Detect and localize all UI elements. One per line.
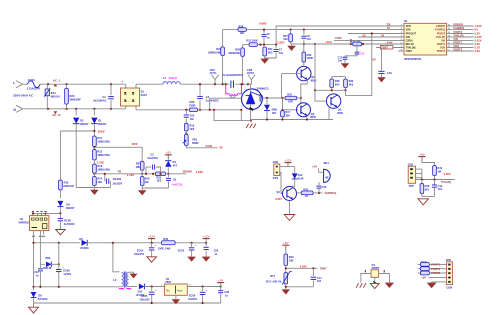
junction bbox=[199, 109, 201, 111]
junction bbox=[104, 173, 106, 175]
svg-text:U2: U2 bbox=[20, 217, 24, 221]
svg-text:R35 10R: R35 10R bbox=[350, 41, 360, 44]
ground bbox=[90, 186, 99, 195]
svg-text:ERROR: ERROR bbox=[453, 23, 462, 27]
svg-text:OUT2: OUT2 bbox=[247, 71, 254, 75]
svg-text:D6: D6 bbox=[66, 202, 70, 206]
svg-text:1u/50V: 1u/50V bbox=[63, 273, 71, 276]
wire bbox=[293, 185, 295, 188]
wire bbox=[332, 76, 346, 78]
svg-text:VR1: VR1 bbox=[192, 138, 198, 142]
junction bbox=[380, 46, 382, 48]
svg-text:1M0(0.5W): 1M0(0.5W) bbox=[97, 154, 110, 157]
IC U3 7805 regulator bbox=[161, 277, 188, 296]
junction bbox=[281, 118, 283, 120]
svg-text:TA: TA bbox=[387, 26, 391, 30]
junction bbox=[202, 285, 204, 287]
wire bbox=[93, 147, 95, 150]
wire +12V rail bbox=[34, 242, 81, 244]
svg-text:IRS2530DVA: IRS2530DVA bbox=[404, 57, 422, 61]
wire bbox=[280, 173, 283, 194]
svg-text:PORT1: PORT1 bbox=[431, 263, 440, 267]
junction bbox=[32, 286, 34, 288]
svg-text:5K1: 5K1 bbox=[425, 187, 430, 191]
junction bbox=[151, 302, 153, 304]
resistor R24 bbox=[208, 47, 224, 84]
power +12V bbox=[203, 234, 210, 242]
junction bbox=[303, 29, 305, 31]
wire aux gnd rail bbox=[34, 286, 122, 288]
diode D9 (inline) bbox=[79, 237, 206, 250]
net label TVAL(N) bbox=[441, 180, 452, 184]
svg-text:TVAL(N): TVAL(N) bbox=[441, 180, 452, 184]
wire U3 out bbox=[187, 285, 220, 287]
svg-text:300V: 300V bbox=[98, 130, 105, 134]
resistor R13 bbox=[93, 164, 110, 173]
svg-text:0V: 0V bbox=[475, 28, 478, 32]
svg-text:3K3: 3K3 bbox=[335, 83, 340, 86]
capacitor C02 bbox=[184, 110, 195, 124]
potentiometer VR1 bbox=[183, 131, 199, 146]
svg-text:R14: R14 bbox=[97, 177, 102, 181]
junction bbox=[159, 173, 161, 175]
relay/buffer RE1 bbox=[312, 161, 330, 182]
svg-text:3u3/400DC: 3u3/400DC bbox=[206, 99, 219, 103]
resistor R18 bbox=[184, 123, 194, 131]
svg-text:1.70V: 1.70V bbox=[97, 160, 104, 164]
wire net row4 bbox=[358, 36, 404, 38]
svg-text:TB: TB bbox=[118, 170, 122, 174]
wire gnd row bbox=[432, 281, 447, 284]
svg-text:TINIT: TINIT bbox=[320, 266, 327, 270]
resistor R35 (inline on +15V rail) bbox=[350, 41, 361, 46]
junction bbox=[318, 192, 320, 194]
capacitor C08 bbox=[218, 287, 229, 304]
ground bbox=[341, 63, 350, 68]
svg-text:3n3/1kVAC: 3n3/1kVAC bbox=[93, 98, 106, 102]
svg-text:PORT2: PORT2 bbox=[453, 48, 462, 52]
svg-text:+15V: +15V bbox=[325, 40, 332, 44]
svg-text:100R: 100R bbox=[307, 56, 313, 60]
wire bbox=[373, 277, 377, 284]
junction bbox=[47, 83, 49, 85]
svg-text:1K0: 1K0 bbox=[189, 127, 194, 131]
junction bbox=[350, 43, 352, 45]
wire lamp return bbox=[214, 110, 251, 121]
power +5V bbox=[282, 241, 289, 249]
wire driver mid bbox=[300, 98, 302, 104]
svg-text:R21: R21 bbox=[136, 161, 141, 165]
junction bbox=[312, 267, 314, 269]
svg-text:C1: C1 bbox=[102, 95, 106, 99]
svg-text:ERROR: ERROR bbox=[436, 25, 445, 28]
junction bbox=[259, 44, 261, 46]
net label TA bbox=[387, 26, 391, 30]
svg-text:RC06: RC06 bbox=[64, 218, 71, 222]
zener diode DW1 bbox=[264, 98, 278, 120]
svg-text:TOP: TOP bbox=[408, 184, 414, 188]
junction bbox=[202, 302, 204, 304]
capacitor DC100 (10u/25V) bbox=[105, 174, 123, 188]
junction bbox=[93, 173, 95, 175]
svg-text:AC_N: AC_N bbox=[52, 113, 60, 117]
junction bbox=[421, 178, 423, 180]
ground bbox=[282, 289, 291, 294]
svg-text:PORT3: PORT3 bbox=[431, 271, 440, 275]
svg-text:104: 104 bbox=[317, 279, 322, 283]
svg-text:13uF: 13uF bbox=[229, 96, 236, 100]
net OFF wire bbox=[94, 147, 142, 161]
svg-text:R18: R18 bbox=[189, 123, 194, 127]
svg-text:0V: 0V bbox=[372, 57, 375, 61]
varistor RZ1 bbox=[44, 84, 60, 109]
svg-text:1N4148: 1N4148 bbox=[43, 267, 52, 270]
svg-text:10K: 10K bbox=[289, 259, 294, 263]
svg-text:1N4007: 1N4007 bbox=[80, 123, 89, 126]
svg-text:3K3: 3K3 bbox=[349, 83, 354, 86]
svg-text:5.24V: 5.24V bbox=[475, 35, 482, 39]
svg-text:OFF: OFF bbox=[132, 142, 138, 146]
ground bbox=[385, 283, 394, 288]
svg-text:R13: R13 bbox=[97, 164, 102, 168]
port N (AC neutral input) bbox=[14, 105, 23, 112]
svg-text:B1: B1 bbox=[141, 89, 145, 93]
ground bbox=[187, 257, 196, 262]
capacitor C6 bbox=[301, 30, 311, 44]
svg-text:750R: 750R bbox=[189, 103, 195, 107]
connector CN1 OUT1 bbox=[210, 68, 219, 84]
wire bbox=[93, 160, 95, 164]
resistor R34 bbox=[263, 45, 273, 59]
svg-text:R46: R46 bbox=[425, 184, 430, 188]
svg-text:1M: 1M bbox=[145, 180, 149, 184]
wire bbox=[280, 166, 288, 168]
svg-text:R40: R40 bbox=[289, 255, 294, 259]
wire TA net bbox=[223, 29, 404, 31]
svg-text:PORT3: PORT3 bbox=[453, 30, 462, 34]
svg-text:VDD: VDD bbox=[453, 44, 459, 48]
electrolytic EC03 bbox=[178, 243, 197, 257]
svg-text:+5V: +5V bbox=[419, 152, 424, 156]
svg-text:CN5: CN5 bbox=[446, 258, 452, 262]
resistor R12 bbox=[93, 150, 110, 161]
transistor Q3 bbox=[326, 94, 343, 115]
svg-text:1.12V: 1.12V bbox=[127, 173, 134, 177]
svg-text:0.05V: 0.05V bbox=[275, 197, 282, 201]
wire bottom rail bbox=[34, 302, 221, 304]
power +5V bbox=[165, 151, 172, 159]
wire top rail (bridge to L1) bbox=[136, 83, 163, 85]
capacitor C10 bbox=[34, 264, 43, 287]
svg-text:4E: 4E bbox=[325, 176, 329, 180]
junction bbox=[47, 108, 49, 110]
svg-text:0.6V: 0.6V bbox=[475, 42, 481, 46]
svg-text:+5V: +5V bbox=[166, 151, 171, 155]
svg-text:FU01: FU01 bbox=[28, 78, 35, 82]
svg-text:1.85V: 1.85V bbox=[277, 40, 284, 44]
wire Q3 emitter bbox=[336, 107, 338, 120]
svg-text:D9: D9 bbox=[79, 237, 83, 241]
resistor R44 bbox=[433, 166, 443, 180]
svg-text:CON: CON bbox=[446, 286, 452, 290]
resistor R26 bbox=[229, 45, 245, 85]
svg-text:R19: R19 bbox=[145, 177, 150, 181]
svg-text:10u(50V): 10u(50V) bbox=[147, 156, 158, 160]
svg-text:5.1V: 5.1V bbox=[475, 46, 481, 50]
junction bbox=[263, 44, 265, 46]
junction bbox=[141, 173, 143, 175]
junction bbox=[191, 242, 193, 244]
junction bbox=[65, 108, 67, 110]
svg-text:10n: 10n bbox=[190, 117, 195, 121]
inductor L1 bbox=[163, 76, 180, 84]
port TINIT (boxed) bbox=[380, 45, 393, 49]
svg-text:AC_L: AC_L bbox=[53, 78, 61, 82]
wire bbox=[240, 110, 242, 121]
wire bbox=[113, 243, 120, 272]
svg-text:PORT2: PORT2 bbox=[437, 50, 446, 53]
svg-text:1.43V: 1.43V bbox=[475, 24, 482, 28]
svg-text:1M: 1M bbox=[437, 169, 441, 173]
capacitor C3 bbox=[146, 152, 161, 173]
svg-text:+5V: +5V bbox=[312, 165, 317, 169]
wire pin8 stub bbox=[398, 50, 404, 52]
svg-text:1K: 1K bbox=[305, 195, 308, 198]
wire net COM bbox=[186, 146, 217, 148]
wire bbox=[422, 194, 435, 197]
wire L rail bbox=[40, 83, 126, 85]
junction bbox=[199, 83, 201, 85]
resistor R53 (to PORT3) bbox=[418, 271, 447, 275]
wire TB net bbox=[276, 26, 404, 45]
svg-text:R11: R11 bbox=[97, 136, 102, 140]
svg-text:6A10: 6A10 bbox=[141, 93, 148, 97]
lamp T1 (magenta winding) bbox=[226, 85, 242, 100]
svg-text:400uH: 400uH bbox=[169, 76, 177, 80]
svg-text:10R: 10R bbox=[288, 100, 293, 103]
wire bbox=[294, 185, 296, 187]
svg-text:C18: C18 bbox=[322, 186, 327, 189]
svg-text:4V7: 4V7 bbox=[173, 164, 178, 168]
wire Q2 base bbox=[283, 109, 298, 111]
junction bbox=[45, 213, 47, 215]
svg-text:PORT1: PORT1 bbox=[453, 41, 462, 45]
junction bbox=[213, 109, 215, 111]
svg-text:1n: 1n bbox=[36, 275, 39, 278]
junction bbox=[263, 29, 265, 31]
wire net TVAL(N) bbox=[416, 179, 455, 181]
diode D2 bbox=[73, 109, 89, 188]
resistor R33 (inline) bbox=[155, 172, 186, 183]
capacitor C13 bbox=[432, 180, 443, 197]
net label 300V bbox=[98, 130, 105, 134]
svg-text:R36: R36 bbox=[307, 53, 312, 57]
wire bbox=[328, 108, 330, 120]
svg-text:COM: COM bbox=[335, 36, 342, 40]
junction bbox=[32, 212, 34, 214]
svg-text:8050: 8050 bbox=[337, 111, 343, 115]
wire U3 gnd bbox=[175, 295, 177, 299]
svg-text:C4: C4 bbox=[206, 95, 210, 99]
svg-text:10K: 10K bbox=[285, 114, 290, 117]
svg-text:RZ1: RZ1 bbox=[51, 91, 57, 95]
svg-text:L2: L2 bbox=[113, 278, 117, 282]
junction bbox=[151, 285, 153, 287]
resistor R40 bbox=[284, 245, 294, 265]
svg-text:TINIT: TINIT bbox=[406, 50, 413, 53]
resistor R14 bbox=[93, 173, 103, 185]
svg-text:+12V: +12V bbox=[284, 158, 291, 162]
resistor R19 bbox=[140, 170, 150, 185]
resistor R46 bbox=[420, 180, 430, 194]
wire net SENSE bbox=[142, 173, 155, 175]
IGBT Q5 20N60C3 bbox=[242, 84, 270, 120]
wire node 300V bbox=[60, 130, 94, 132]
resistor R37 (inline gate) bbox=[285, 94, 301, 104]
junction bbox=[371, 32, 373, 34]
junction bbox=[145, 173, 147, 175]
wire bbox=[282, 98, 284, 110]
svg-text:R26: R26 bbox=[235, 48, 240, 52]
svg-text:CN3: CN3 bbox=[408, 162, 414, 166]
junction bbox=[110, 108, 112, 110]
svg-text:5.2V: 5.2V bbox=[475, 32, 481, 36]
ground (open) bbox=[56, 230, 66, 235]
wire bbox=[350, 40, 352, 44]
svg-text:UF4006: UF4006 bbox=[80, 247, 90, 250]
svg-text:L: L bbox=[13, 81, 15, 85]
svg-text:A-IN: A-IN bbox=[387, 41, 393, 45]
wire lamp to IGBT bbox=[210, 98, 242, 110]
voltage label 1.43V bbox=[196, 170, 203, 174]
wire gate bbox=[262, 97, 281, 99]
svg-text:COM: COM bbox=[205, 144, 212, 148]
wire Q4 emitter bbox=[290, 199, 293, 214]
svg-text:1K2: 1K2 bbox=[157, 179, 162, 183]
wire bottom rail bbox=[251, 120, 267, 122]
net label OFF bbox=[132, 142, 138, 146]
junction bbox=[185, 109, 187, 111]
svg-text:1n: 1n bbox=[214, 253, 217, 256]
svg-text:Q2: Q2 bbox=[311, 112, 315, 116]
junction bbox=[225, 83, 227, 85]
voltage label 0V bbox=[362, 33, 365, 37]
transformer L2 bbox=[113, 272, 131, 289]
svg-text:DB2: DB2 bbox=[45, 257, 51, 260]
junction bbox=[281, 97, 283, 99]
electrolytic EC06 bbox=[188, 287, 208, 304]
wire bbox=[315, 89, 346, 91]
svg-text:C16: C16 bbox=[387, 71, 392, 75]
ground (open) bbox=[418, 197, 429, 205]
wire N rail bbox=[23, 108, 126, 110]
svg-text:FANREQ: FANREQ bbox=[453, 26, 464, 30]
wire net TINIT bbox=[286, 266, 318, 273]
junction bbox=[240, 109, 242, 111]
svg-text:R20: R20 bbox=[69, 94, 74, 98]
capacitor C17 bbox=[338, 56, 348, 63]
svg-text:R12: R12 bbox=[97, 150, 102, 154]
svg-text:680R(10W): 680R(10W) bbox=[208, 52, 221, 55]
svg-text:R42: R42 bbox=[303, 188, 308, 191]
svg-text:0V: 0V bbox=[362, 33, 365, 37]
ground (open) bbox=[147, 257, 157, 262]
svg-text:10u/25V: 10u/25V bbox=[188, 298, 197, 301]
svg-text:1M0: 1M0 bbox=[136, 165, 142, 169]
net label TINIT bbox=[320, 266, 327, 270]
resistor R39 bbox=[344, 77, 354, 91]
junction bbox=[303, 43, 305, 45]
svg-text:Vout: Vout bbox=[177, 288, 182, 292]
svg-text:1M0(0.5W): 1M0(0.5W) bbox=[97, 168, 110, 171]
svg-text:8050: 8050 bbox=[311, 79, 317, 83]
junction bbox=[209, 109, 211, 111]
connector CN5 bbox=[446, 258, 453, 290]
fuse FU01 bbox=[27, 78, 41, 91]
connector CN2 bbox=[273, 160, 280, 180]
svg-text:220V-240V AC: 220V-240V AC bbox=[13, 94, 34, 98]
wire bbox=[282, 97, 286, 99]
capacitor C2 (series, on rail) bbox=[222, 74, 243, 88]
svg-text:100u/25V: 100u/25V bbox=[139, 298, 150, 301]
junction bbox=[266, 97, 268, 99]
voltage label 0.96V bbox=[259, 21, 266, 25]
svg-text:TVAL(P): TVAL(P) bbox=[453, 34, 463, 38]
svg-text:1M0(0.5W): 1M0(0.5W) bbox=[97, 140, 110, 143]
svg-text:R28: R28 bbox=[238, 25, 243, 29]
svg-text:BYV26C: BYV26C bbox=[38, 298, 48, 301]
svg-text:R44: R44 bbox=[437, 166, 442, 170]
junction bbox=[214, 83, 216, 85]
svg-text:C3: C3 bbox=[150, 152, 154, 156]
svg-text:20N60C3: 20N60C3 bbox=[257, 87, 269, 91]
svg-text:C02: C02 bbox=[190, 114, 195, 118]
wire net bbox=[243, 44, 249, 46]
svg-text:8050: 8050 bbox=[310, 115, 316, 119]
ground bbox=[287, 44, 296, 51]
junction bbox=[433, 178, 435, 180]
wire bbox=[235, 83, 248, 85]
svg-text:R24: R24 bbox=[216, 47, 221, 51]
svg-text:DC100: DC100 bbox=[113, 177, 122, 181]
svg-text:EC03: EC03 bbox=[178, 250, 185, 253]
svg-text:SENSE: SENSE bbox=[183, 170, 193, 174]
resistor R28 (inline) bbox=[238, 25, 247, 36]
junction bbox=[185, 132, 187, 134]
svg-text:+5V: +5V bbox=[218, 278, 223, 282]
svg-text:+12V: +12V bbox=[203, 234, 210, 238]
svg-text:-: - bbox=[132, 81, 134, 85]
transistor Q1 bbox=[297, 62, 317, 98]
wire driver bottom rail bbox=[242, 120, 334, 121]
ground (open) bbox=[284, 215, 295, 221]
resistor R36 bbox=[302, 44, 313, 62]
wire bbox=[379, 270, 390, 283]
net label COM bbox=[205, 144, 212, 148]
transistor Q2 bbox=[297, 103, 317, 120]
junction bbox=[306, 118, 308, 120]
svg-text:C9: C9 bbox=[173, 177, 177, 181]
svg-text:R37: R37 bbox=[287, 94, 292, 97]
junction bbox=[222, 83, 224, 85]
svg-text:Q3: Q3 bbox=[338, 107, 342, 111]
junction bbox=[281, 109, 283, 111]
wire U2 top net bbox=[33, 212, 60, 214]
junction bbox=[362, 43, 364, 45]
svg-text:1N4007: 1N4007 bbox=[98, 123, 107, 126]
svg-text:CSRA: CSRA bbox=[406, 40, 413, 43]
svg-text:C2 0u33(400VDC): C2 0u33(400VDC) bbox=[222, 74, 243, 77]
